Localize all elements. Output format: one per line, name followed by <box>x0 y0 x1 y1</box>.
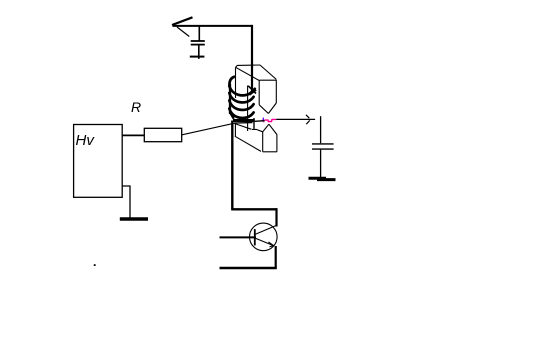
wire: apparatus down <box>231 121 233 210</box>
Hv box <box>74 125 123 198</box>
right capacitor C2 lead <box>320 116 322 143</box>
wire: down to collector <box>275 208 277 226</box>
antenna arrow (input) <box>172 17 193 36</box>
wire: resistor to apparatus <box>182 123 253 135</box>
Q1 collector line <box>255 226 275 235</box>
upper electrode box (3D slab) <box>236 65 277 114</box>
lower electrode box (3D slab) <box>234 123 277 152</box>
wire: emitter down <box>275 246 277 268</box>
Q1 emitter arrow <box>269 242 274 247</box>
resistor R body <box>144 128 181 141</box>
label Hv <box>76 132 94 149</box>
capacitor C2 <box>312 144 334 149</box>
beam arrowhead <box>306 115 310 124</box>
coil left side <box>229 84 231 114</box>
wire: top vertical down to coil <box>251 25 253 93</box>
wire: Hv bottom tab <box>122 186 130 218</box>
electrode bottom bar <box>233 119 255 122</box>
stub under bar <box>253 118 255 129</box>
beam line <box>276 118 315 120</box>
cylinder edge <box>247 86 249 132</box>
capacitor C1 stub <box>198 26 200 41</box>
label R <box>131 99 141 115</box>
wire: Hv to resistor <box>122 134 144 136</box>
capacitor C1 lower stub <box>198 45 200 59</box>
C2 lower lead <box>320 150 322 178</box>
capacitor C1 <box>191 41 205 45</box>
Q1 base bar <box>254 229 256 245</box>
spark squiggle (pink) <box>255 118 277 123</box>
ground under Hv <box>120 217 148 221</box>
ground under C2 <box>309 178 336 179</box>
wire: bottom horizontal <box>220 267 277 270</box>
coil L1 (thick arcs) <box>229 77 255 118</box>
Q1 base lead <box>220 236 257 238</box>
ground bar under C1 <box>190 56 205 58</box>
stray dot <box>94 264 96 266</box>
wire: horizontal to transistor <box>231 208 277 210</box>
coil crossover X <box>248 86 256 95</box>
coil lower corner <box>230 112 234 119</box>
wire: top horizontal <box>173 25 253 27</box>
Q1 emitter line <box>255 238 273 245</box>
transistor Q1 circle <box>249 223 277 251</box>
